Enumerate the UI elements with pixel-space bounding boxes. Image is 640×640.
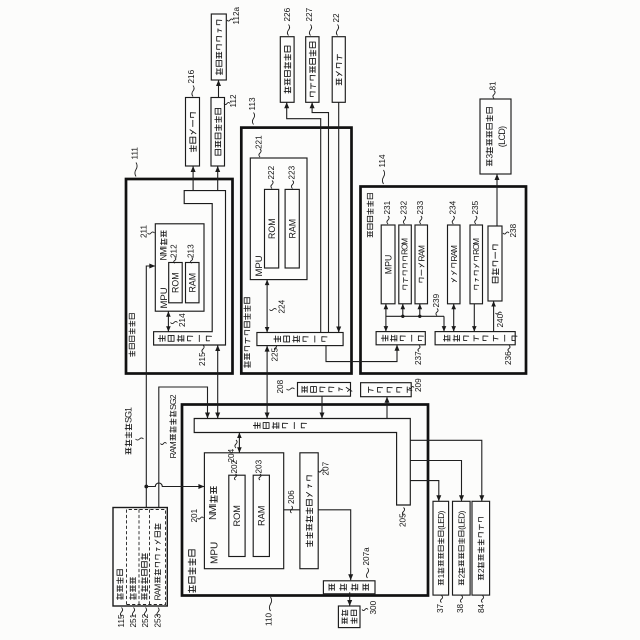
wire SG2 (RAM消去信号) power to port205 xyxy=(159,387,210,508)
svg-text:MPU: MPU xyxy=(383,255,393,275)
svg-text:204: 204 xyxy=(227,448,236,462)
label 201 xyxy=(190,508,203,522)
label 233 xyxy=(416,200,425,224)
svg-text:ROM: ROM xyxy=(401,238,410,255)
label 212 xyxy=(170,244,179,263)
block 111 title 払出制御装置 xyxy=(129,314,135,357)
box 検査装置 300 (inspection device) xyxy=(338,606,360,628)
block 110 主制御装置 (main control) outline xyxy=(182,405,428,596)
svg-text:81: 81 xyxy=(489,81,498,91)
box 音声出力装置 226 (sound output) xyxy=(280,37,294,103)
wire port205 to ソレノイド209 xyxy=(385,397,390,419)
io-port 205 (L-shaped 入出力ポート, block 110) xyxy=(194,419,410,506)
svg-text:1: 1 xyxy=(436,573,446,578)
label 208 xyxy=(276,379,294,393)
block 111 払出制御装置 (payout control) outline xyxy=(126,179,233,374)
svg-text:235: 235 xyxy=(471,200,480,214)
wire MPU201 to 207 chip (206) xyxy=(284,509,300,511)
wire bus239-MPU231 and into 入力ポート237 xyxy=(384,304,389,332)
svg-text:226: 226 xyxy=(283,7,292,21)
svg-text:RAM: RAM xyxy=(153,584,163,601)
label 211 xyxy=(140,225,155,238)
label 239 xyxy=(432,293,441,315)
svg-text:215: 215 xyxy=(198,352,207,366)
label 22 xyxy=(332,13,341,36)
label 240 xyxy=(496,312,506,328)
box 出力ポート 238 xyxy=(488,226,502,301)
text MPU in 201 xyxy=(210,542,221,564)
svg-text:SG2: SG2 xyxy=(168,394,178,410)
svg-text:22: 22 xyxy=(332,13,341,23)
label 38 xyxy=(456,596,465,614)
label 37 xyxy=(436,596,445,614)
text NMI端子 in 201 xyxy=(208,487,219,520)
svg-text:240: 240 xyxy=(496,313,505,327)
wire port215 to 発射制御装置112 xyxy=(215,166,220,191)
svg-text:213: 213 xyxy=(186,244,195,258)
box MPU 211 (in block 111) xyxy=(155,224,204,311)
label 232 xyxy=(400,200,409,224)
box 枠ボタン 22 (frame button) xyxy=(332,37,345,103)
svg-text:3: 3 xyxy=(484,154,494,159)
svg-text:206: 206 xyxy=(287,490,296,504)
svg-text:216: 216 xyxy=(187,69,196,83)
svg-text:RAM: RAM xyxy=(168,441,178,458)
wire SG1 (停電信号) power to MPU211 NMI xyxy=(146,264,155,508)
box 球発射ユニット 112a (ball launch unit) xyxy=(211,14,226,80)
label 81 xyxy=(489,81,498,99)
box RAM 213 xyxy=(186,263,200,303)
wire 各種スイッチ208 to port205 xyxy=(320,396,325,418)
box 発射制御装置 112 (launch control) xyxy=(211,98,225,167)
svg-text:MPU: MPU xyxy=(210,542,221,564)
label 224 xyxy=(270,299,287,313)
label 113 xyxy=(248,97,257,124)
wire port205 to 第2図柄表示装置38 xyxy=(410,461,464,502)
power row RAM消去スイッチ回路 253 xyxy=(153,524,163,601)
label 115 xyxy=(117,608,126,628)
svg-text:RAM: RAM xyxy=(188,273,198,293)
label 114 xyxy=(378,154,387,184)
svg-text:223: 223 xyxy=(288,165,297,179)
svg-text:(LED): (LED) xyxy=(436,510,446,530)
svg-text:(LCD): (LCD) xyxy=(497,126,507,147)
label 207 xyxy=(319,461,331,475)
box RAM 203 xyxy=(253,475,269,556)
label 206 xyxy=(287,490,296,513)
label 234 xyxy=(448,200,457,224)
svg-text:(LED): (LED) xyxy=(456,510,466,530)
box ROM 202 xyxy=(229,475,245,556)
svg-text:NMI: NMI xyxy=(159,246,169,261)
label 231 xyxy=(383,200,392,224)
label 251 xyxy=(129,608,138,628)
svg-text:222: 222 xyxy=(267,165,276,179)
label 112a xyxy=(227,6,241,24)
label 207a xyxy=(362,547,371,578)
svg-text:114: 114 xyxy=(378,154,387,167)
label 235 xyxy=(471,200,480,224)
svg-text:238: 238 xyxy=(509,223,518,237)
svg-text:239: 239 xyxy=(432,293,441,307)
wire port225 to ランプ表示装置227 xyxy=(310,102,329,332)
svg-text:252: 252 xyxy=(141,613,150,627)
box ソレノイド 209 (solenoid) xyxy=(361,383,412,397)
wire port225 to 音声出力装置226 xyxy=(284,102,321,332)
box 第3図柄表示装置(LCD) 81 xyxy=(480,99,511,174)
label 84 xyxy=(477,596,486,614)
svg-text:237: 237 xyxy=(414,351,423,365)
label 238 xyxy=(503,223,518,237)
svg-text:111: 111 xyxy=(131,147,140,160)
text NMI端子 in 211 xyxy=(159,231,169,261)
block 115 電源装置 (power supply) outline xyxy=(113,508,167,607)
box MPU 231 xyxy=(381,225,395,304)
block 113 title 音声ランプ制御装置 xyxy=(244,298,250,368)
svg-text:38: 38 xyxy=(456,603,465,613)
label 215 xyxy=(198,345,207,366)
box キャラクタROM 235 xyxy=(470,225,483,304)
svg-text:RAM: RAM xyxy=(256,506,266,526)
box 第1図柄表示装置(LED) 37 xyxy=(433,501,449,595)
port 入力ポート 237 xyxy=(376,332,425,345)
svg-text:253: 253 xyxy=(154,613,163,627)
svg-text:SG1: SG1 xyxy=(123,407,133,423)
io-port 225 入出力ポート (block 113) xyxy=(257,333,343,346)
label 214 xyxy=(171,313,188,327)
svg-text:37: 37 xyxy=(436,603,445,613)
wire SG1 branch to MPU201 NMI (with hop) xyxy=(146,483,204,489)
wire port205 to 第2図柄保留ランプ84 xyxy=(410,440,484,501)
label 110 xyxy=(265,597,274,626)
box RAM 223 xyxy=(285,189,299,268)
power row 停電監視回路 252 xyxy=(141,554,147,600)
box プログラムROM 232 xyxy=(399,225,412,304)
bus line 224 (MPU221-port225) xyxy=(265,280,270,333)
svg-text:MPU: MPU xyxy=(254,255,265,276)
svg-text:234: 234 xyxy=(448,200,457,214)
bus line 240 (236 to 238) xyxy=(491,301,496,332)
svg-text:212: 212 xyxy=(170,244,179,258)
power dashed enclosure xyxy=(127,510,166,605)
label 111 xyxy=(131,147,140,177)
label 253 xyxy=(154,608,163,628)
svg-text:221: 221 xyxy=(255,135,264,149)
text MPU in 221 xyxy=(254,255,265,276)
svg-text:RAM: RAM xyxy=(416,245,426,261)
svg-text:231: 231 xyxy=(383,200,392,214)
box 第2図柄保留ランプ 84 xyxy=(472,501,490,595)
svg-text:110: 110 xyxy=(265,613,274,626)
label 223 xyxy=(288,165,297,188)
box ランプ表示装置 227 (lamp display) xyxy=(306,37,319,103)
svg-text:203: 203 xyxy=(255,459,264,473)
label 112 xyxy=(224,94,238,107)
svg-text:227: 227 xyxy=(305,7,314,21)
block 110 title 主制御装置 xyxy=(188,550,195,592)
svg-text:RAM: RAM xyxy=(287,219,297,239)
wire port225 to 入力ポート237 (113-114 link) xyxy=(326,345,400,362)
svg-text:208: 208 xyxy=(276,379,285,393)
wire port205-port215 (110-111 link) xyxy=(215,345,220,419)
svg-text:112a: 112a xyxy=(232,6,241,24)
label 300 xyxy=(362,600,378,614)
label 237 xyxy=(414,346,423,366)
wire 207 chip to 検査端子 xyxy=(318,510,353,581)
label 202 xyxy=(230,459,239,480)
svg-text:300: 300 xyxy=(369,600,378,614)
label 226 xyxy=(283,7,292,35)
wire 画像コントローラ236 - ビデオRAM234 xyxy=(451,304,456,332)
label 203 xyxy=(255,459,264,480)
box 画像コントローラ 236 (image controller) xyxy=(435,332,517,345)
svg-text:ROM: ROM xyxy=(267,218,277,239)
box ビデオRAM 234 xyxy=(448,225,461,304)
port 検査端子 (inspection terminal) xyxy=(323,581,375,594)
label 213 xyxy=(186,244,195,263)
svg-text:201: 201 xyxy=(190,508,199,522)
wire port215 to 払出モータ216 xyxy=(191,166,196,191)
block 115 title 電源装置 xyxy=(117,570,123,600)
svg-text:2: 2 xyxy=(456,573,466,578)
label 236 xyxy=(504,346,513,366)
junction dot SG1 xyxy=(144,485,148,489)
wire 枠ボタン22 to port225 xyxy=(336,102,341,332)
svg-text:236: 236 xyxy=(504,351,513,365)
svg-text:232: 232 xyxy=(400,200,409,214)
wire 発射制御装置112 to 球発射ユニット112a xyxy=(216,80,221,98)
svg-text:2: 2 xyxy=(476,568,486,573)
wire bus239-ROM232 xyxy=(401,304,406,318)
label RAM消去信号SG2 xyxy=(161,394,178,458)
box ROM 222 xyxy=(265,189,279,268)
wire キャラクタROM235 to 画像コントローラ236 xyxy=(472,304,477,332)
bus line 204 (MPU201-port205) xyxy=(237,433,242,453)
svg-text:RAM: RAM xyxy=(449,245,459,261)
box ワークRAM 233 xyxy=(415,225,428,304)
label 252 xyxy=(141,608,150,628)
box 各種スイッチ 208 (switches) xyxy=(298,383,352,397)
block 114 title 表示制御装置 xyxy=(367,194,373,237)
wire port205-port225 (110-113 link) xyxy=(265,346,270,419)
svg-text:84: 84 xyxy=(477,603,486,613)
box MPU 201 xyxy=(204,453,283,569)
wire port205 to 第1図柄表示装置37 xyxy=(410,481,441,502)
box 払出モータ 216 (payout motor) xyxy=(186,98,200,167)
label 221 xyxy=(255,135,264,157)
bus line 214 (MPU211-port215) xyxy=(166,311,171,332)
wire 出力ポート238 to LCD 81 xyxy=(495,174,500,226)
box ROM 212 xyxy=(169,263,183,303)
box 役物比率管理チップ 207 xyxy=(300,453,318,569)
svg-text:112: 112 xyxy=(229,94,238,107)
block 113 音声ランプ制御装置 (sound lamp control) outline xyxy=(241,128,351,374)
svg-text:211: 211 xyxy=(140,225,149,238)
svg-text:251: 251 xyxy=(129,613,138,627)
wire bus239 into 画像コントローラ236 xyxy=(442,316,447,331)
svg-text:207: 207 xyxy=(322,461,331,475)
block 114 表示制御装置 (display control) outline xyxy=(361,187,527,374)
label 停電信号SG1 xyxy=(123,407,143,454)
text MPU in 211 xyxy=(159,287,170,308)
label 204 xyxy=(227,440,237,463)
svg-text:ROM: ROM xyxy=(472,238,481,255)
label 216 xyxy=(187,69,196,96)
svg-text:ROM: ROM xyxy=(171,272,181,293)
label 225 xyxy=(271,346,280,362)
wire bus239-RAM233 xyxy=(418,304,423,318)
wire 検査端子 to 検査装置300 xyxy=(347,592,352,606)
bus line 239 (vertical) xyxy=(386,315,444,317)
box 第2図柄表示装置(LED) 38 xyxy=(453,501,471,595)
label 227 xyxy=(305,7,314,35)
box MPU 221 (in block 113) xyxy=(250,158,307,280)
svg-text:113: 113 xyxy=(248,97,257,110)
label 205 xyxy=(399,508,408,528)
power row 電源部 251 xyxy=(130,578,136,600)
io-port 215 (L-shaped 入出力ポート, block 111) xyxy=(154,191,226,345)
svg-text:224: 224 xyxy=(278,299,287,313)
svg-text:209: 209 xyxy=(414,378,423,392)
svg-text:207a: 207a xyxy=(362,547,371,566)
svg-text:NMI: NMI xyxy=(208,504,219,521)
svg-text:233: 233 xyxy=(416,200,425,214)
svg-text:214: 214 xyxy=(178,313,187,327)
label 209 xyxy=(409,378,423,392)
svg-text:ROM: ROM xyxy=(232,505,242,526)
label 222 xyxy=(267,165,276,188)
